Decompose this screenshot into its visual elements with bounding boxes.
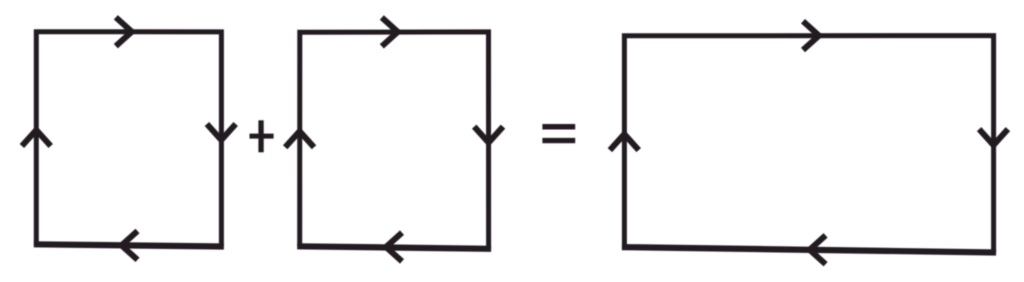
loop C1 right arrow (downward) bbox=[207, 124, 236, 140]
loop C2 bottom wire bbox=[297, 246, 491, 249]
equals operator bbox=[542, 124, 575, 143]
loop C1 outline (left square: left, top, right edges) bbox=[36, 32, 221, 247]
loop C right arrow (downward) bbox=[979, 129, 1008, 145]
loop C left arrow (upward) bbox=[610, 134, 639, 150]
loop C top arrow (rightward) bbox=[803, 21, 819, 50]
loop C1 bottom wire bbox=[34, 244, 224, 246]
loop C1 top arrow (rightward) bbox=[116, 17, 132, 46]
loop C outline (big rectangle: left, top, right edges) bbox=[624, 36, 993, 253]
plus operator bbox=[250, 120, 274, 152]
loop C bottom wire bbox=[622, 247, 996, 252]
loop C2 left arrow (upward) bbox=[285, 131, 314, 147]
loop C1 bottom arrow (leftward) bbox=[122, 231, 138, 260]
loop C bottom arrow (leftward) bbox=[810, 235, 826, 264]
loop C2 right arrow (downward) bbox=[474, 127, 503, 143]
loop C1 left arrow (upward) bbox=[22, 130, 51, 146]
loop C2 bottom arrow (leftward) bbox=[386, 233, 402, 262]
loop C2 outline (middle square: left, top, right edges) bbox=[300, 32, 489, 249]
loop C2 top arrow (rightward) bbox=[382, 18, 398, 47]
